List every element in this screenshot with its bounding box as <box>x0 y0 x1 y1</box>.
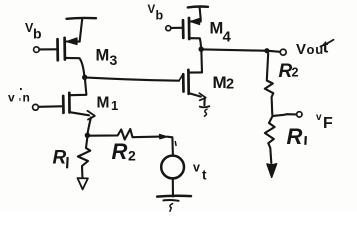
wire node A to M2 gate <box>87 75 183 81</box>
label vin <box>8 88 30 105</box>
svg-text:b: b <box>156 9 164 23</box>
svg-text:R: R <box>287 124 303 149</box>
label Vb (left) <box>25 21 42 42</box>
t crossbar flourish of Vout <box>321 40 334 47</box>
transistor M4 (PMOS) <box>183 18 201 47</box>
label R2 (right) <box>279 61 299 82</box>
svg-text:V: V <box>296 41 306 58</box>
svg-text:v: v <box>8 91 15 105</box>
svg-text:t: t <box>202 168 207 183</box>
svg-text:M: M <box>213 73 227 92</box>
resistor R2 (right) <box>265 53 274 115</box>
terminal Vb (left) <box>34 47 57 53</box>
svg-text:V: V <box>148 4 156 16</box>
label vF <box>316 112 333 132</box>
node C (M4 drain / M2 drain) <box>199 47 204 52</box>
label M2 <box>213 73 235 93</box>
svg-text:F: F <box>323 115 333 132</box>
node D (output / R2 top) <box>264 48 269 53</box>
svg-text:R: R <box>279 61 293 82</box>
terminal vF <box>273 112 302 117</box>
label vt <box>193 161 207 183</box>
source vt (circle) <box>161 156 184 179</box>
label Vout <box>296 39 329 59</box>
terminal Vout <box>270 49 287 55</box>
svg-text:M: M <box>210 20 224 38</box>
wire node C to output <box>204 49 265 50</box>
svg-text:ou: ou <box>307 42 324 57</box>
svg-text:,: , <box>19 92 22 102</box>
svg-text:R: R <box>53 148 67 169</box>
svg-text:v: v <box>193 161 200 175</box>
label R1 (right) <box>287 124 307 149</box>
svg-text:4: 4 <box>223 29 232 46</box>
wire to vt source <box>167 137 176 156</box>
label R2 (horizontal) <box>112 139 137 164</box>
transistor M1 (NMOS) <box>63 80 95 134</box>
svg-text:R: R <box>112 139 128 164</box>
label R1 (left) <box>53 148 69 169</box>
terminal Vb (right) <box>166 26 182 31</box>
svg-text:1: 1 <box>111 98 118 113</box>
svg-text:M: M <box>96 47 110 65</box>
node B (M1 source) <box>85 133 90 138</box>
resistor R1 (left, to ground) <box>78 138 91 190</box>
resistor R2 (horizontal) <box>90 129 167 140</box>
supply bar (top of M3) <box>67 18 97 41</box>
label M4 <box>210 20 232 46</box>
svg-text:M: M <box>97 95 110 112</box>
svg-text:v: v <box>316 112 322 123</box>
label M3 <box>96 47 118 69</box>
transistor M2 (NMOS) <box>183 52 209 116</box>
terminal vin <box>33 104 62 110</box>
svg-text:2: 2 <box>128 148 136 164</box>
svg-text:t: t <box>323 39 329 57</box>
ground (under vt) <box>157 179 191 212</box>
node A (M3 drain / M1 drain / M2 gate) <box>82 75 87 80</box>
svg-text:n: n <box>23 91 30 105</box>
svg-text:3: 3 <box>110 52 118 68</box>
resistor R1 (right, to ground) <box>265 117 277 178</box>
label Vb (right) <box>148 4 164 23</box>
svg-text:b: b <box>33 26 42 42</box>
label M1 <box>97 95 119 114</box>
svg-text:2: 2 <box>292 66 299 80</box>
svg-text:2: 2 <box>226 77 234 93</box>
supply bar (top of M4) <box>188 7 208 20</box>
transistor M3 (PMOS) <box>58 38 85 76</box>
